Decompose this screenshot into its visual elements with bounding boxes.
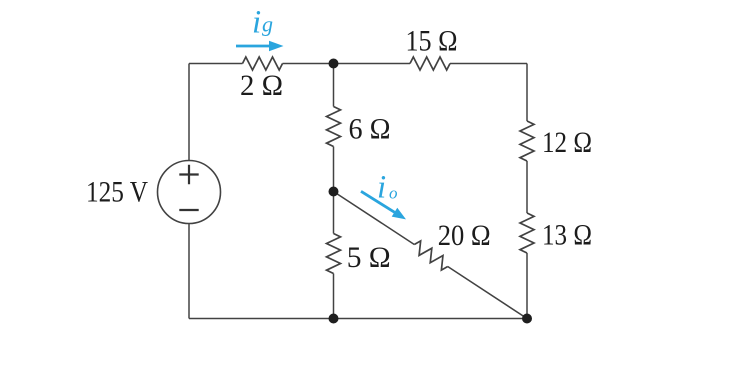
wire: top wire right segment — [450, 63, 527, 65]
wire: right branch middle — [526, 161, 528, 213]
wire: left branch bottom (source bottom to bottom wire) — [188, 224, 190, 319]
node: bottom right junction — [522, 314, 532, 324]
svg-text:i: i — [377, 170, 386, 206]
svg-text:15 Ω: 15 Ω — [406, 25, 458, 58]
resistor R 5ohm — [327, 234, 341, 274]
voltage source V1 circle — [158, 161, 221, 224]
resistor R 13ohm — [520, 213, 534, 253]
svg-text:o: o — [389, 184, 398, 203]
svg-text:13 Ω: 13 Ω — [542, 219, 592, 252]
voltage source minus sign — [179, 209, 198, 211]
wire: right branch upper — [526, 64, 528, 122]
wire: diagonal lower segment — [448, 267, 527, 319]
resistor R 2ohm — [243, 57, 283, 70]
wire: middle branch bottom — [333, 274, 335, 319]
svg-text:i: i — [252, 5, 261, 41]
resistor R 12ohm — [520, 121, 534, 161]
svg-text:12 Ω: 12 Ω — [542, 126, 592, 159]
node: bottom middle junction — [329, 314, 339, 324]
resistor R 15ohm — [410, 57, 450, 70]
resistor R 6ohm — [327, 107, 341, 147]
svg-text:125 V: 125 V — [86, 176, 148, 209]
node: top middle junction — [329, 59, 339, 69]
voltage source plus sign — [179, 165, 198, 184]
wire: top wire middle segment — [283, 63, 411, 65]
wire: middle branch top — [333, 64, 335, 107]
wire: left branch top (source top to top wire) — [188, 64, 190, 161]
svg-text:g: g — [262, 12, 273, 37]
current arrow io — [361, 191, 406, 219]
svg-text:20 Ω: 20 Ω — [438, 219, 491, 252]
svg-text:6 Ω: 6 Ω — [349, 113, 391, 146]
svg-text:5 Ω: 5 Ω — [347, 241, 391, 274]
resistor R 20ohm (diagonal) — [411, 239, 452, 272]
wire: right branch lower — [526, 253, 528, 319]
wire: top wire left segment — [189, 63, 243, 65]
wire: diagonal upper segment — [334, 192, 415, 245]
current arrow ig — [236, 41, 284, 51]
svg-text:2 Ω: 2 Ω — [240, 69, 283, 102]
wire: bottom wire — [189, 318, 527, 320]
node: middle junction — [329, 187, 339, 197]
wire: middle branch center — [333, 147, 335, 234]
